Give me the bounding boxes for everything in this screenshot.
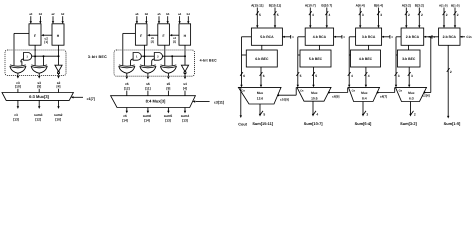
svg-text:c6[9]: c6[9] [332, 95, 339, 99]
wire cin 0 stub col2 [334, 36, 342, 38]
svg-text:[12]: [12] [124, 87, 130, 91]
svg-text:[9]: [9] [37, 85, 41, 89]
wire c3 route from F to XOR1 [14, 32, 29, 34]
svg-text:3-bit BEC: 3-bit BEC [88, 55, 107, 59]
wire RCA outputs route col3 [349, 36, 355, 38]
svg-text:2-b RCA: 2-b RCA [406, 35, 420, 39]
svg-text:Cin: Cin [466, 35, 471, 39]
junction dot bus-xor3 tap [171, 55, 173, 57]
wire Cout from mux col1 [238, 86, 240, 88]
svg-text:Mux: Mux [311, 91, 318, 95]
svg-text:c2[4]: c2[4] [422, 94, 429, 98]
4-bit BEC dashed box [114, 50, 195, 76]
RCA block 2-b RCA col4 [401, 28, 424, 45]
wire Sum[1:0] output [447, 45, 449, 116]
svg-text:6: 6 [263, 74, 265, 78]
half adder H (bit2) [52, 24, 64, 45]
svg-text:B[6:4]: B[6:4] [374, 3, 383, 7]
wire and G2 hook to XOR1 [130, 59, 133, 66]
svg-text:6:3 Mux[3]: 6:3 Mux[3] [29, 94, 49, 99]
svg-text:2: 2 [457, 13, 459, 17]
svg-text:[2]: [2] [151, 41, 154, 44]
mux 10:5 col2 [297, 87, 331, 101]
wire carry c2 to mux4 [428, 36, 439, 38]
wire bus tap to XOR2 [43, 56, 45, 65]
wire carry c4 mux4 to mux3 [394, 87, 396, 92]
svg-text:[10]: [10] [15, 85, 21, 89]
wire N2 output arrow [184, 73, 186, 77]
wire b4 input arrow [187, 16, 189, 21]
svg-text:4: 4 [312, 13, 314, 17]
svg-text:3: 3 [366, 113, 368, 117]
wire A input col4 [405, 8, 407, 26]
svg-text:b5: b5 [166, 12, 170, 16]
svg-text:Mux: Mux [408, 91, 415, 95]
junction dot bus-s4 [184, 55, 186, 57]
svg-text:5: 5 [259, 13, 261, 17]
wire c3 to mux [17, 89, 19, 93]
BEC block 5-b BEC col2 [300, 50, 331, 67]
svg-text:Mux: Mux [257, 91, 264, 95]
wire B input col3 [378, 8, 380, 26]
svg-text:3: 3 [411, 74, 413, 78]
wire Sum output col1 [259, 104, 261, 114]
wire RCA to BEC col1 [261, 45, 263, 50]
svg-text:2: 2 [421, 13, 423, 17]
svg-text:5: 5 [300, 74, 302, 78]
svg-text:A[15:11]: A[15:11] [251, 3, 263, 7]
svg-text:sum6: sum6 [143, 114, 152, 118]
svg-text:4: 4 [328, 13, 330, 17]
wire s6 from F6 to XOR2 [143, 45, 145, 65]
svg-text:5: 5 [263, 113, 265, 117]
svg-text:F: F [163, 34, 165, 38]
svg-text:2: 2 [408, 13, 410, 17]
svg-text:[11]: [11] [145, 87, 151, 91]
svg-text:c4[7]: c4[7] [380, 95, 387, 99]
svg-text:[13]: [13] [165, 119, 171, 123]
svg-text:B[15:11]: B[15:11] [269, 3, 281, 7]
wire a3 input arrow [30, 16, 32, 21]
wire a2 input arrow [52, 16, 54, 21]
wire B input col2 [326, 8, 328, 26]
svg-text:3: 3 [380, 13, 382, 17]
xor gate X5 [161, 65, 177, 66]
svg-text:c1[7]: c1[7] [87, 97, 95, 101]
wire mux M1 out c3 [17, 100, 19, 106]
junction dot bus-s6 [143, 55, 145, 57]
wire BEC to mux col2 [313, 67, 315, 85]
svg-text:a2: a2 [51, 12, 55, 16]
svg-text:s4: s4 [183, 82, 187, 86]
svg-text:3: 3 [398, 74, 400, 78]
svg-text:B[10:7]: B[10:7] [321, 3, 332, 7]
wire Sum output col3 [362, 102, 364, 115]
wire X3 output arrow [126, 73, 128, 76]
svg-text:[4]: [4] [183, 87, 187, 91]
svg-text:A[3:2]: A[3:2] [402, 3, 411, 7]
wire mux M2 out sum4 [184, 108, 186, 112]
svg-text:5: 5 [277, 13, 279, 17]
wire mux M2 out sum5 [167, 108, 169, 112]
wire carry c5 F5 to F6 [150, 34, 158, 36]
svg-text:6-b BEC: 6-b BEC [255, 57, 269, 61]
wire s2 to mux [58, 89, 60, 93]
wire a6 input arrow [136, 16, 138, 21]
BEC block 3-b BEC col4 [397, 50, 420, 67]
mux 8:4 col3 [349, 87, 380, 101]
wire RCA to BEC col3 [368, 45, 370, 50]
wire N1 output arrow [58, 73, 60, 76]
mux M1 6:3 [2, 93, 73, 101]
wire mux M1 out sum3 [38, 100, 40, 106]
svg-text:[12]: [12] [35, 118, 41, 122]
wire carry c6 mux3 to mux2 [347, 87, 349, 92]
wire select c1 into mux M1 [74, 96, 84, 98]
svg-text:2: 2 [414, 113, 416, 117]
wire RCA outputs route col4 [396, 36, 401, 38]
svg-text:A[1:0]: A[1:0] [439, 3, 448, 7]
wire B input col1 [274, 8, 276, 26]
wire bus segment G3-right [163, 55, 186, 57]
wire s3 from F to XOR2 [34, 45, 36, 65]
svg-text:2: 2 [446, 13, 448, 17]
svg-text:5: 5 [315, 74, 317, 78]
not gate N1 [55, 65, 62, 71]
wire s5 from F5 to XOR3 [164, 45, 166, 65]
svg-text:Cout: Cout [238, 122, 247, 126]
svg-text:Sum[10:7]: Sum[10:7] [304, 121, 324, 126]
svg-text:b4: b4 [187, 12, 191, 16]
svg-text:sum3: sum3 [34, 113, 43, 117]
and gate G1 [24, 53, 32, 61]
svg-text:[10]: [10] [55, 118, 61, 122]
svg-text:b6: b6 [145, 12, 149, 16]
wire b3 input arrow [39, 16, 41, 21]
wire Cin into RCA col5 [460, 36, 465, 38]
3-bit BEC dashed box [5, 50, 66, 76]
svg-text:4-b RCA: 4-b RCA [313, 35, 327, 39]
svg-text:Cs: Cs [352, 89, 356, 92]
svg-text:4-bit BEC: 4-bit BEC [200, 58, 217, 62]
wire a5 input arrow [158, 16, 160, 21]
wire A input col1 [256, 8, 258, 26]
svg-text:10:5: 10:5 [311, 96, 318, 100]
wire RCA to BEC col4 [408, 45, 410, 50]
wire A input col3 [359, 8, 361, 26]
svg-text:B[1:0]: B[1:0] [451, 3, 460, 7]
svg-text:Sum[3:2]: Sum[3:2] [400, 121, 417, 126]
wire BEC to mux col1 [260, 67, 262, 85]
wire bus tap to XOR3 [171, 56, 173, 65]
wire b5 input arrow [167, 16, 169, 21]
half adder H (bit4) [179, 24, 191, 45]
wire c6 to mux [126, 91, 128, 96]
svg-text:[13]: [13] [182, 119, 188, 123]
svg-text:6: 6 [243, 74, 245, 78]
svg-text:sum2: sum2 [54, 113, 63, 117]
RCA block 4-b RCA col2 [305, 28, 333, 45]
RCA block 5-b RCA col1 [251, 28, 282, 45]
wire X5 output arrow [167, 73, 169, 76]
svg-text:Cs: Cs [399, 89, 403, 92]
svg-text:b3: b3 [39, 12, 43, 16]
wire s5 to mux [167, 91, 169, 96]
mux M2 8:4 [111, 96, 196, 108]
mux 6:3 col4 [396, 87, 427, 101]
BEC block 4-b BEC col3 [351, 50, 381, 67]
svg-text:c6: c6 [125, 82, 129, 86]
wire b2 input arrow [62, 16, 64, 21]
svg-text:F: F [34, 34, 36, 38]
xor gate X1 [10, 65, 26, 66]
svg-text:c3[11]: c3[11] [214, 101, 224, 105]
svg-text:[1]: [1] [44, 40, 48, 44]
svg-text:c10[9]: c10[9] [280, 97, 289, 101]
svg-text:c3: c3 [14, 113, 18, 117]
junction dot bus-xor2 tap [43, 55, 45, 57]
mux 12:6 col1 [238, 87, 281, 104]
RCA block 2-b RCA col5 [439, 28, 460, 45]
svg-text:a6: a6 [135, 12, 139, 16]
wire a4 input arrow [179, 16, 181, 21]
svg-text:12:6: 12:6 [257, 96, 264, 100]
svg-text:3-b BEC: 3-b BEC [402, 57, 416, 61]
wire select c3 into mux M2 [196, 101, 210, 103]
wire RCA outputs route col2 [298, 36, 305, 38]
svg-text:c6: c6 [123, 114, 127, 118]
wire carry c10 mux2 to mux1 [295, 87, 297, 95]
wire A input col2 [309, 8, 311, 26]
wire s3 to mux [38, 89, 40, 93]
svg-text:Cs: Cs [300, 89, 304, 92]
wire cin 0 stub col4 [424, 36, 432, 38]
wire s4 from H to NOT [184, 45, 186, 65]
svg-text:4: 4 [316, 113, 318, 117]
svg-text:Mux: Mux [361, 91, 368, 95]
wire and G3 hook to XOR2 [152, 59, 155, 66]
xor gate X3 [119, 65, 135, 66]
wire carry c4 H to F5 [172, 34, 179, 36]
svg-text:Sum[6:4]: Sum[6:4] [355, 121, 372, 126]
svg-text:3: 3 [362, 13, 364, 17]
svg-text:2: 2 [450, 70, 452, 74]
full adder F (bit5) [158, 24, 170, 45]
and gate G3 [154, 53, 162, 61]
wire X1 output arrow [17, 73, 19, 75]
wire cin 0 stub col1 [282, 36, 290, 38]
wire s2 from H to NOT [58, 45, 60, 65]
and gate G2 [133, 53, 141, 61]
svg-text:sum4: sum4 [181, 114, 190, 118]
junction dot bus-s3 [34, 55, 36, 57]
wire mux M2 out sum6 [147, 108, 149, 112]
svg-text:a5: a5 [157, 12, 161, 16]
wire RCA to BEC col2 [318, 45, 320, 50]
junction dot bus-s2 [58, 55, 60, 57]
wire s4 to mux [184, 91, 186, 96]
svg-text:6:3: 6:3 [409, 96, 414, 100]
svg-text:[14]: [14] [144, 119, 150, 123]
svg-text:8:4: 8:4 [362, 96, 367, 100]
xor gate X2 [31, 65, 47, 66]
svg-text:F: F [140, 34, 142, 38]
svg-text:4: 4 [351, 74, 353, 78]
svg-text:a4: a4 [178, 12, 182, 16]
svg-text:[9]: [9] [166, 87, 170, 91]
svg-text:s5: s5 [167, 82, 171, 86]
wire X2 output arrow [38, 73, 40, 75]
svg-text:3-b RCA: 3-b RCA [362, 35, 376, 39]
wire cin 0 stub col3 [382, 36, 390, 38]
wire b6 input arrow [145, 16, 147, 21]
wire Sum output col4 [410, 102, 412, 115]
wire mux M1 out sum2 [58, 100, 60, 106]
svg-text:Sum[15:11]: Sum[15:11] [252, 121, 273, 126]
wire B[1:0] input [454, 8, 456, 26]
svg-text:sum5: sum5 [164, 114, 173, 118]
wire and G1 hook to XOR1 [21, 59, 24, 66]
wire A[1:0] input [443, 8, 445, 26]
wire Sum output col2 [312, 101, 314, 114]
xor gate X4 [140, 65, 156, 66]
wire bus segment G2-G3 [141, 55, 154, 57]
svg-text:B[3:2]: B[3:2] [415, 3, 424, 7]
full adder F (bit3) [29, 24, 41, 45]
full adder F (bit6) [135, 24, 147, 45]
wire mux M2 out c6 [126, 108, 128, 112]
BEC block 6-b BEC col1 [246, 50, 277, 67]
svg-text:5-b BEC: 5-b BEC [309, 57, 323, 61]
not gate N2 [181, 65, 188, 71]
svg-text:[4]: [4] [57, 85, 61, 89]
svg-text:[1]: [1] [173, 41, 176, 44]
svg-text:A[6:4]: A[6:4] [356, 3, 365, 7]
wire bus from and G1 [32, 55, 59, 57]
wire carry c2 from H to F [44, 34, 53, 36]
svg-text:A[10:7]: A[10:7] [305, 3, 316, 7]
svg-text:s6: s6 [146, 82, 150, 86]
wire c6 route from F6 to XOR1 [123, 32, 136, 34]
wire X4 output arrow [147, 73, 149, 76]
svg-text:[14]: [14] [122, 119, 128, 123]
svg-text:b2: b2 [61, 12, 65, 16]
svg-text:Sum[1:0]: Sum[1:0] [444, 121, 461, 126]
RCA block 3-b RCA col3 [356, 28, 382, 45]
wire BEC to mux col3 [365, 67, 367, 85]
wire B input col4 [418, 8, 420, 26]
svg-text:2-b RCA: 2-b RCA [443, 35, 457, 39]
svg-text:[13]: [13] [13, 118, 19, 122]
svg-text:5-b RCA: 5-b RCA [260, 35, 274, 39]
svg-text:Cs: Cs [241, 89, 245, 92]
wire s6 to mux [147, 91, 149, 96]
svg-text:8:4 Mux[3]: 8:4 Mux[3] [146, 99, 166, 104]
svg-text:a3: a3 [29, 12, 33, 16]
svg-text:4-b BEC: 4-b BEC [359, 57, 373, 61]
wire RCA outputs route col1 [242, 36, 252, 38]
wire BEC to mux col4 [408, 67, 410, 85]
svg-text:4: 4 [368, 74, 370, 78]
